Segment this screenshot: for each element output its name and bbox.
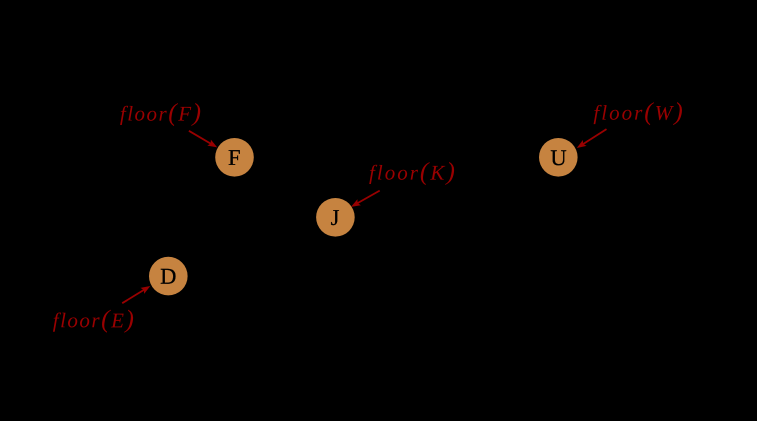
svg-text:floor(F): floor(F) [120,98,203,127]
svg-text:floor(W): floor(W) [593,97,684,126]
svg-text:J: J [331,205,340,230]
svg-text:U: U [550,145,566,170]
svg-text:floor(K): floor(K) [369,157,457,186]
node J [316,198,355,237]
arrow floor(K) to J [349,191,379,210]
arrow floor(E) to D [122,283,152,303]
arrow floor(W) to U [575,129,607,151]
svg-text:floor(E): floor(E) [53,304,136,333]
arrow floor(F) to F [189,131,219,151]
svg-text:F: F [228,145,241,170]
node F [215,138,254,177]
node U [539,138,578,177]
node D [149,257,188,296]
svg-text:D: D [160,264,176,289]
